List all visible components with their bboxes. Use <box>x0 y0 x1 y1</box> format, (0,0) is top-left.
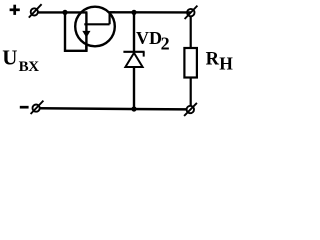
label U вх <box>2 28 233 75</box>
transistor drain hook <box>110 12 115 24</box>
transistor channel <box>84 23 109 25</box>
wire top rail right <box>110 11 191 13</box>
minus sign <box>20 106 29 109</box>
node junction dot left <box>62 10 67 15</box>
svg-text:2: 2 <box>161 34 170 54</box>
transistor source/gate vertical lead <box>85 12 87 50</box>
resistor RH body <box>184 48 197 78</box>
zener VD2 cathode tick <box>143 52 145 57</box>
wire bottom rail <box>40 108 187 109</box>
terminal top-left <box>29 4 42 17</box>
wire resistor bottom <box>190 78 192 106</box>
wire resistor top <box>190 16 192 48</box>
svg-text:ВХ: ВХ <box>19 59 40 75</box>
wire zener bottom <box>133 67 135 109</box>
transistor VT1 envelope <box>75 7 115 47</box>
wire zener top <box>133 12 135 51</box>
terminal bottom-left <box>31 101 44 114</box>
node junction dot zener bottom <box>131 106 136 111</box>
svg-text:U: U <box>2 45 17 69</box>
wire gate loop <box>65 12 86 50</box>
svg-text:R: R <box>206 50 220 70</box>
zener VD2 triangle <box>125 53 142 67</box>
terminal top-right <box>185 6 198 19</box>
zener VD2 cathode bar <box>123 51 144 53</box>
node junction dot zener top <box>131 10 136 15</box>
svg-text:Н: Н <box>219 54 233 74</box>
wire top-left rail <box>38 11 88 13</box>
svg-text:VD: VD <box>136 28 162 48</box>
plus sign <box>10 5 20 15</box>
terminal bottom-right <box>184 103 197 116</box>
transistor gate arrow <box>82 31 90 38</box>
